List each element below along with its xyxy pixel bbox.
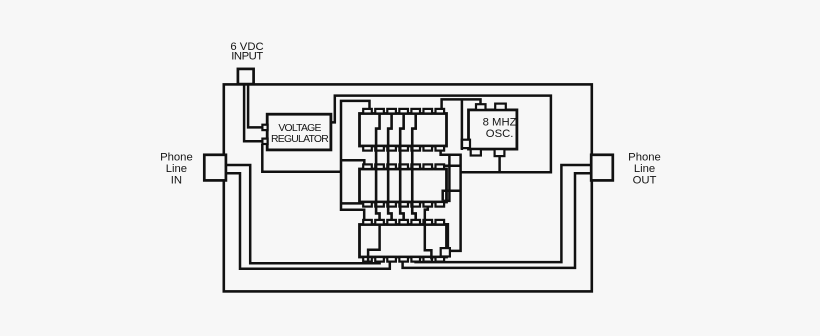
IC U2 top pin 5 — [411, 164, 420, 169]
wire: branch U2 bottom pin 7 to rail — [443, 191, 461, 201]
IC U2 bottom pin 3 — [387, 202, 396, 207]
IC U3 bottom pin 6 — [423, 257, 432, 262]
oscillator pin bottom-right — [495, 149, 505, 156]
svg-text:Phone: Phone — [628, 151, 661, 163]
IC U3 bottom pin 5 — [411, 257, 420, 262]
IC U3 bottom pin 7 — [436, 257, 445, 262]
IC U2 top pin 6 — [423, 164, 432, 169]
wire: branch to U2 top pin 1 — [341, 160, 364, 165]
wire: U3 interior right (pin6 top to pin6 bottom) — [425, 207, 432, 260]
wire: phone line IN ring — [226, 173, 390, 268]
wire: 6 VDC to regulator upper pin — [248, 84, 262, 127]
IC U1 top pin 6 — [423, 109, 432, 114]
IC U2 bottom pin 6 — [423, 202, 432, 207]
IC U3 top pin 2 — [375, 220, 384, 225]
IC U2 top pin 1 — [363, 164, 372, 169]
IC U1 bottom pin 4 — [399, 146, 408, 151]
wire: branch to U2 bottom pin 1 — [341, 202, 362, 205]
IC U2 top pin 2 — [375, 164, 384, 169]
IC U1 bottom pin 6 — [423, 146, 432, 151]
svg-text:Line: Line — [634, 163, 655, 175]
oscillator pin left notch — [462, 140, 470, 148]
IC U3 body — [360, 225, 447, 258]
8 MHZ oscillator Y1 — [469, 110, 517, 149]
IC U3 top pin 1 — [363, 220, 372, 225]
svg-text:OSC.: OSC. — [486, 128, 514, 140]
svg-text:Line: Line — [166, 163, 187, 175]
IC U2 top pin 3 — [387, 164, 396, 169]
regulator pin lower-left — [262, 139, 267, 144]
wire: U3 top pin 7 to right notch — [444, 224, 448, 248]
IC U1 top pin 1 — [363, 109, 372, 114]
wire: bus line 2 (U1 pin3 through U2 to U3 pin3) — [388, 114, 391, 221]
wire: bus line 4 (U1 pin5 through U2 to U3 pin5) — [412, 114, 415, 221]
wire: phone line IN tip — [226, 165, 380, 263]
IC U2 bottom pin 1 — [363, 202, 372, 207]
IC U3 top pin 4 — [399, 220, 408, 225]
IC U1 top pin 2 — [375, 109, 384, 114]
IC U1 bottom pin 5 — [411, 146, 420, 151]
wire: phone line OUT tip — [416, 165, 592, 262]
IC U1 bottom pin 3 — [387, 146, 396, 151]
IC U1 bottom pin 1 — [363, 146, 372, 151]
oscillator pin top-left — [476, 104, 486, 110]
wire: U3 interior left (pin2 top to pin1 bottom) — [368, 225, 380, 264]
wire: phone line OUT ring — [403, 173, 592, 268]
IC U3 bottom pin 1 — [363, 257, 372, 262]
regulator pin upper-left — [262, 125, 267, 130]
oscillator pin bottom-left — [471, 149, 481, 155]
IC U2 bottom pin 4 — [399, 202, 408, 207]
svg-text:Phone: Phone — [160, 151, 193, 163]
IC U3 bottom pin 4 — [399, 257, 408, 262]
svg-text:OUT: OUT — [633, 174, 657, 186]
IC U3 top pin 7 — [436, 220, 445, 225]
wire: U1 pin to oscillator — [442, 99, 481, 109]
wire: regulator lower pin to left vertical net — [262, 144, 341, 172]
IC U3 top pin 3 — [387, 220, 396, 225]
wire: rail riser to oscillator input wire — [461, 99, 464, 150]
IC U1 top pin 7 — [436, 109, 445, 114]
wire: 6 VDC to regulator lower pin — [244, 84, 262, 141]
IC U2 bottom pin 2 — [375, 202, 384, 207]
module outline (outer box) — [224, 84, 592, 291]
svg-text:VOLTAGE: VOLTAGE — [278, 123, 321, 134]
IC U2 bottom pin 7 — [436, 202, 445, 207]
IC U1 bottom pin 2 — [375, 146, 384, 151]
IC U1 top pin 5 — [411, 109, 420, 114]
wire: branch U2 top pin 7 to rail — [444, 164, 460, 167]
IC U3 bottom pin 2 — [375, 257, 384, 262]
svg-text:INPUT: INPUT — [231, 51, 263, 63]
IC U3 top pin 6 — [423, 220, 432, 225]
wire: regulator output power rail (top rail, right side return) — [331, 96, 551, 173]
IC U2 body — [360, 169, 447, 202]
wire: bus line 3 (U1 pin4 through U2 to U3 pin4) — [400, 114, 403, 221]
Phone Line OUT connector — [591, 155, 613, 181]
svg-text:IN: IN — [171, 174, 182, 186]
wire: bus line 1 (U1 pin2 through U2 to U3 pin2) — [376, 114, 379, 221]
IC U1 top pin 4 — [399, 109, 408, 114]
voltage regulator U4 — [267, 114, 331, 150]
IC U2 top pin 7 — [436, 164, 445, 169]
IC U2 top pin 4 — [399, 164, 408, 169]
svg-text:REGULATOR: REGULATOR — [271, 134, 329, 145]
wire: left vertical net to IC pins (node A) — [341, 101, 370, 220]
svg-text:8 MHZ: 8 MHZ — [483, 116, 517, 128]
IC U2 bottom pin 5 — [411, 202, 420, 207]
U3 right-side notch pin — [441, 248, 450, 256]
oscillator pin top-right — [495, 104, 506, 110]
IC U1 body — [360, 114, 447, 147]
wire: right power rail net (U1 pin7 down to U3 right notch) — [441, 151, 461, 251]
6 VDC input connector — [238, 69, 254, 84]
IC U3 top pin 5 — [411, 220, 420, 225]
IC U1 top pin 3 — [387, 109, 396, 114]
wire: oscillator ground to power return — [498, 156, 501, 172]
Phone Line IN connector — [204, 155, 226, 181]
IC U3 bottom pin 3 — [387, 257, 396, 262]
wire: stub rail to U2 bottom pin 7 — [443, 155, 449, 201]
IC U1 bottom pin 7 — [436, 146, 445, 151]
